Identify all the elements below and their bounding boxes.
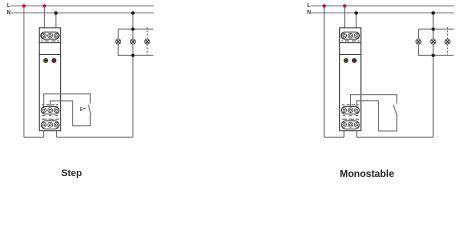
svg-text:L: L [307,3,311,9]
svg-text:L: L [7,3,11,9]
svg-text:Monostable: Monostable [340,169,395,180]
svg-text:N: N [7,10,11,16]
svg-text:N: N [307,10,311,16]
svg-text:E: E [80,107,84,113]
svg-text:Step: Step [61,168,82,178]
